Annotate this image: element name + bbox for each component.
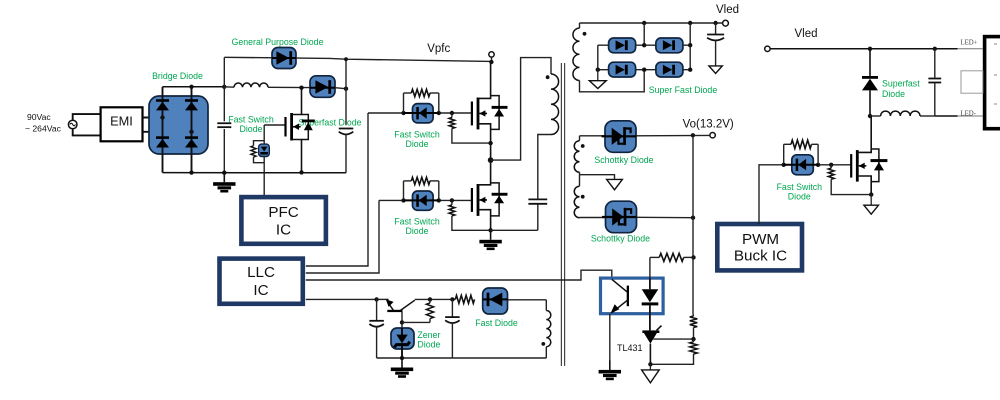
wire pfc source [292, 140, 302, 173]
wire buck gate [784, 164, 851, 166]
PFC IC U1 [241, 197, 326, 244]
wire AC to EMI bottom [73, 129, 101, 136]
bridge diode D3 [185, 99, 198, 110]
junction bridge AC2 [189, 130, 193, 134]
transistor Q2 high-side MOSFET [471, 98, 487, 130]
junction divider mid [691, 337, 695, 341]
svg-text:~ 264Vac: ~ 264Vac [25, 124, 62, 134]
pfc gate net bracket [254, 125, 265, 197]
secondary winding 3 [574, 172, 579, 218]
wire EMI to bridge AC2 [143, 131, 192, 133]
label Vled top [716, 4, 739, 16]
junction sf row1 mid [642, 43, 646, 47]
fast switch diode D8 box [404, 104, 439, 123]
ground buck [864, 195, 879, 215]
fast switch diode D7 box PFC [259, 144, 270, 156]
resistor buck gate pulldown [828, 165, 871, 195]
ground center tap [607, 179, 623, 190]
junction buck gate a [782, 163, 786, 167]
junction base node [400, 320, 404, 324]
ground half bridge [479, 230, 501, 250]
label Fast Switch Diode LLC bottom [394, 217, 440, 236]
general purpose diode D5 box [272, 48, 296, 69]
transformer core [561, 63, 564, 366]
wire top gate [368, 112, 472, 114]
svg-text:LED-: LED- [961, 110, 977, 117]
pfc body diode [302, 115, 315, 140]
label LED+ [961, 40, 978, 47]
label General Purpose Diode [232, 37, 324, 47]
wire led- rail [935, 115, 983, 117]
wire schottky2 out [637, 216, 694, 218]
secondary winding 3 dot [581, 195, 585, 199]
svg-text:Diode: Diode [240, 124, 263, 134]
wire q2 drain [478, 62, 491, 98]
transformer primary winding [551, 74, 559, 135]
label TL431 [617, 343, 643, 353]
q5 body diode [871, 149, 888, 182]
optocoupler U3 box [601, 278, 664, 314]
fast switch diode D9 box [404, 191, 439, 210]
junction led cap top [933, 47, 937, 51]
label LED- [961, 110, 977, 117]
ground aux [391, 358, 413, 378]
fast diode D17 box [483, 288, 508, 314]
junction buck diode top [868, 47, 872, 51]
junction vr2 [688, 21, 692, 25]
capacitor Vled C3 [707, 23, 724, 66]
junction bridge AC1 [160, 115, 164, 119]
svg-text:Diode: Diode [882, 89, 905, 99]
resistor top gate parallel [404, 89, 439, 96]
wire buck ic to gate [759, 165, 784, 224]
wire schottky2 in [580, 217, 606, 219]
svg-text:Buck IC: Buck IC [734, 248, 787, 265]
junction zener gnd [400, 356, 404, 360]
junction schottky2 out [691, 216, 695, 220]
schottky diode D14 box [602, 121, 637, 153]
aux winding dot [541, 342, 545, 346]
svg-text:LLC: LLC [247, 264, 275, 281]
label Superfast Diode buck [882, 79, 920, 100]
label Fast Diode [475, 318, 518, 328]
wire LLC vcc [306, 298, 377, 300]
capacitor input filter [217, 87, 231, 173]
wire q3 drain [478, 160, 491, 185]
wire center tap [580, 175, 615, 180]
bridge diode D4 [185, 136, 198, 147]
capacitor aux C4 [369, 299, 384, 358]
resistor divider lower [650, 339, 697, 364]
primary dot [546, 75, 550, 79]
wire q5 source [857, 176, 871, 195]
svg-text:90Vac: 90Vac [27, 112, 51, 122]
junction bridge bottom [189, 170, 193, 174]
label Schottky Diode 1 [594, 155, 653, 165]
junction buck gate b [816, 163, 820, 167]
opto LED [642, 278, 659, 314]
superfast freewheel diode D18 [862, 49, 878, 116]
junction bottom gate b [437, 198, 441, 202]
bridge right leg wire [191, 87, 193, 173]
terminal Vled right [765, 46, 770, 51]
terminal Vled top [723, 20, 729, 26]
junction input cap bottom [222, 171, 226, 175]
secondary winding 1 [573, 23, 644, 92]
wire vcc bottom rail [377, 357, 547, 359]
wire q2 source [478, 124, 491, 160]
ground TL431 [642, 364, 660, 383]
resistor q4 bias [426, 297, 433, 322]
wire collector rail [415, 298, 456, 300]
super fast diode D12 box [609, 62, 636, 77]
junction q3 source [488, 228, 492, 232]
label Bridge Diode [152, 71, 203, 81]
svg-text:Vled: Vled [716, 4, 739, 16]
wire TL431 ref [653, 338, 693, 340]
label Schottky Diode 2 [591, 234, 650, 244]
junction bridge top [189, 85, 193, 89]
svg-text:Superfast: Superfast [882, 79, 920, 89]
svg-text:Vpfc: Vpfc [427, 43, 450, 55]
wire sf row1 left leg [597, 45, 599, 69]
wire pfc drain [292, 88, 302, 115]
svg-text:EMI: EMI [110, 113, 133, 128]
q3 body diode [491, 183, 508, 216]
wire riser to boost bypass [223, 57, 225, 87]
junction fb resistor tap [691, 255, 695, 259]
svg-text:Super Fast Diode: Super Fast Diode [649, 85, 718, 95]
svg-text:Zener: Zener [417, 330, 440, 340]
svg-text:Fast Switch: Fast Switch [228, 115, 274, 125]
wire resonant cap rail [491, 229, 538, 231]
super fast diode D11 box [656, 38, 683, 53]
junction half-bridge mid [488, 157, 494, 163]
svg-text:Vled: Vled [794, 28, 817, 40]
super fast diode D13 box [656, 62, 683, 77]
wire schottky1 out [636, 134, 710, 136]
ground opto [599, 360, 621, 380]
wire Vled rail [580, 22, 723, 24]
wire bridge top rail [163, 86, 225, 88]
transistor Q1 PFC MOSFET [284, 113, 300, 141]
junction sf row2 left [596, 68, 600, 72]
wire led+ rail [770, 48, 983, 50]
wire LED to TL431 [649, 314, 651, 331]
secondary winding 2 [574, 136, 579, 172]
bridge diode D2 [156, 136, 169, 147]
label AC input voltage [25, 112, 62, 134]
junction vr1 [642, 21, 646, 25]
transistor base lead [401, 312, 403, 328]
terminal Vpfc [489, 52, 494, 62]
pfc gate wire [264, 124, 285, 126]
junction pfc source [299, 170, 303, 174]
svg-text:Fast Diode: Fast Diode [475, 318, 518, 328]
bridge left leg wire [162, 87, 164, 173]
LLC IC U2 [220, 259, 303, 304]
wire to aux winding [508, 299, 547, 301]
junction buck sw node [868, 114, 872, 118]
junction vcc b [450, 297, 454, 301]
capacitor led C6 [928, 49, 941, 116]
junction bulk node [222, 85, 226, 89]
svg-text:Diode: Diode [417, 340, 440, 350]
junction top gate a [401, 111, 405, 115]
label Fast Switch Diode buck [777, 182, 823, 202]
schottky diode D15 box [602, 201, 637, 233]
label Superfast Diode PFC [298, 117, 361, 127]
aux winding [546, 300, 551, 358]
svg-text:Fast Switch: Fast Switch [777, 182, 823, 192]
terminal Vo [710, 133, 715, 138]
junction top source net [488, 141, 492, 145]
LED module box [961, 37, 1000, 129]
superfast boost diode D6 box [310, 76, 335, 98]
PWM Buck IC U5 [717, 224, 802, 270]
EMI filter block [101, 107, 143, 141]
wire sf out riser [689, 23, 691, 70]
wire LLC gate1 [306, 113, 368, 266]
super fast diode D10 box [609, 38, 636, 53]
junction TL431 anode [648, 362, 652, 366]
svg-text:IC: IC [276, 222, 291, 239]
junction buck gate c [829, 163, 833, 167]
ground secondary rectifier [589, 70, 606, 89]
resistor opto feed [650, 253, 694, 261]
label Super Fast Diode [649, 85, 718, 95]
svg-text:Schottky Diode: Schottky Diode [591, 234, 650, 244]
junction Vo [691, 133, 695, 137]
junction sf row2 mid [642, 68, 646, 72]
junction top gate b [437, 111, 441, 115]
transistor Q3 low-side MOSFET [471, 184, 487, 216]
resistor pfc gate [251, 146, 256, 157]
junction Vpfc [489, 60, 493, 64]
wire mid to primary [491, 58, 551, 161]
buck gate bracket [784, 144, 818, 165]
wire AC to EMI top [73, 114, 101, 120]
svg-text:Diode: Diode [406, 226, 429, 236]
svg-text:Vo(13.2V): Vo(13.2V) [683, 118, 734, 130]
ground bridge [213, 173, 235, 193]
svg-text:TL431: TL431 [617, 343, 643, 353]
wire bridge bottom rail [163, 172, 347, 174]
wire schottky1 in [580, 135, 606, 137]
svg-text:Bridge Diode: Bridge Diode [152, 71, 203, 81]
resistor top gate pulldown [449, 111, 491, 143]
wire sf row2 [598, 69, 690, 71]
label Zener Diode [417, 330, 440, 350]
zener diode D16 box [391, 328, 414, 358]
secondary winding 1 dot [583, 32, 587, 36]
svg-text:PFC: PFC [268, 204, 298, 221]
label Vo [683, 118, 734, 130]
label Vled right [794, 28, 817, 40]
wire boost node riser [344, 57, 348, 125]
wire boost diode out [335, 88, 346, 89]
junction boost drain [299, 86, 303, 90]
wire opto anode [649, 257, 651, 278]
junction bottom gate a [401, 198, 405, 202]
wire opto emitter [609, 314, 611, 370]
wire LLC feedback [306, 270, 612, 280]
wire q5 drain [857, 116, 871, 152]
label Fast Switch Diode PFC [228, 115, 274, 135]
wire sf row1 [598, 44, 690, 46]
capacitor aux C5 [445, 299, 460, 358]
capacitor bulk C1 [339, 129, 354, 173]
wire Vpfc rail [224, 57, 491, 61]
junction vcc a [374, 297, 378, 301]
wire Vo rail down [692, 135, 694, 313]
bridge rectifier BR1 box [149, 96, 208, 154]
resistor divider upper [690, 314, 698, 339]
transistor Q4 pass [386, 299, 415, 312]
wire vcc to emitter [377, 298, 389, 300]
resistor bottom gate parallel [404, 177, 439, 184]
inductor buck L2 [870, 111, 935, 116]
transistor Q5 buck MOSFET [850, 150, 866, 182]
TL431 U4 [642, 326, 661, 365]
label Fast Switch Diode LLC top [394, 130, 440, 149]
svg-text:IC: IC [253, 282, 268, 299]
junction sf row1 right [688, 43, 692, 47]
svg-text:PWM: PWM [742, 231, 779, 248]
svg-text:Diode: Diode [406, 139, 429, 149]
fast switch diode D19 box [784, 155, 818, 175]
label Vpfc [427, 43, 450, 55]
svg-text:Schottky Diode: Schottky Diode [594, 155, 653, 165]
svg-text:General Purpose Diode: General Purpose Diode [232, 37, 324, 47]
resistor buck gate parallel [784, 140, 818, 148]
capacitor resonant C2 [528, 135, 551, 231]
AC source V1 [68, 120, 77, 129]
junction boost out [344, 87, 348, 91]
wire base resistor link [402, 321, 430, 323]
wire q3 source [478, 210, 491, 231]
inductor boost L1 [224, 83, 310, 88]
opto transistor [610, 279, 629, 313]
wire EMI to bridge AC1 [143, 117, 163, 119]
wire sf mid riser [643, 23, 645, 45]
bridge diode D1 [156, 99, 169, 110]
ground Vled cap [709, 66, 722, 74]
junction sf row2 right [688, 68, 692, 72]
junction q5 source [869, 192, 873, 196]
wire bottom gate [379, 199, 472, 201]
junction Vled cap [713, 21, 717, 25]
wire LLC gate2 [306, 200, 379, 273]
svg-text:Diode: Diode [788, 192, 811, 202]
top gate bracket [404, 93, 439, 113]
q2 body diode [491, 96, 508, 130]
bottom gate bracket [404, 181, 439, 201]
resistor bottom gate pulldown [449, 198, 491, 230]
svg-text:LED+: LED+ [961, 40, 978, 47]
secondary winding 2 dot [581, 144, 585, 148]
resistor aux series [455, 295, 474, 303]
